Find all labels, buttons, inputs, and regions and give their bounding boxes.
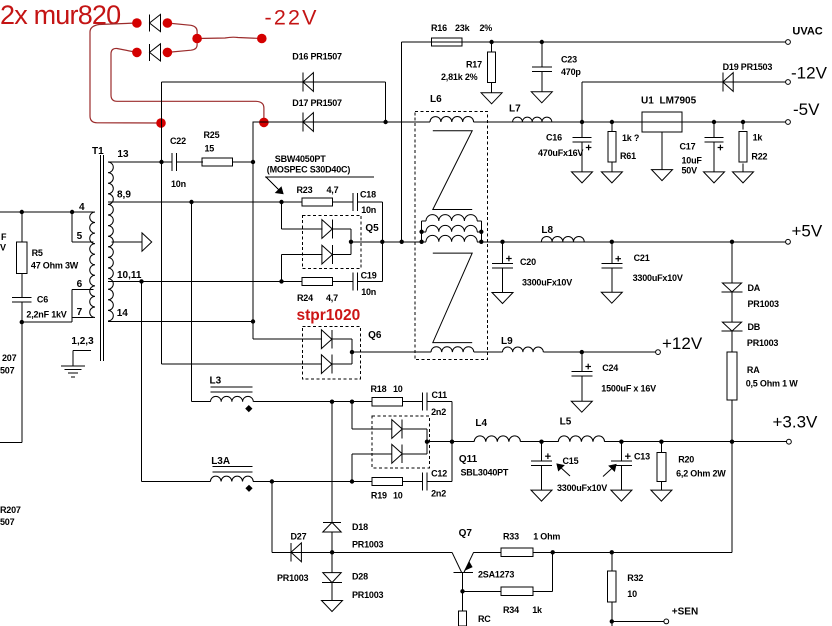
red wire from D-mur820-A anode to D17 output node <box>90 23 161 123</box>
wire D17 vertical x=253 <box>252 121 255 123</box>
svg-text:C11: C11 <box>432 390 448 400</box>
L6 middle winding row 3 <box>426 235 477 241</box>
resistor RA 0,5 Ohm 1W <box>727 352 737 400</box>
svg-text:RC: RC <box>478 614 491 624</box>
T1 pin 4 lead <box>0 211 94 213</box>
svg-text:10: 10 <box>393 384 403 394</box>
inductor L8 <box>541 236 584 241</box>
resistor R18 10 <box>372 398 403 406</box>
svg-text:3300uFx10V: 3300uFx10V <box>522 278 572 288</box>
magamp assembly L6 dashed box <box>415 112 488 360</box>
svg-text:L6: L6 <box>430 94 442 105</box>
Q11 diode B <box>401 444 403 463</box>
wire Q6 outputs join <box>332 338 352 340</box>
svg-text:-22V: -22V <box>265 6 319 30</box>
svg-text:+3.3V: +3.3V <box>773 413 819 432</box>
ground under R17 <box>491 83 493 93</box>
wire -5V / D17 rail y=122 <box>253 121 416 123</box>
svg-text:10n: 10n <box>361 287 376 297</box>
wire R33 line corner up to +3.3V <box>731 442 733 553</box>
wire RA to +3.3V rail <box>731 400 733 442</box>
capacitor C13 3300uFx10V <box>620 442 622 461</box>
node C24 <box>580 350 584 354</box>
wire L3 line <box>192 401 211 403</box>
red node dot on D17 line left <box>156 118 166 128</box>
wire D16 branch down to D17 line <box>385 82 387 122</box>
Q5 diode A <box>331 220 333 239</box>
wire C19 right to corner <box>358 280 383 282</box>
L6 middle winding row 1 <box>422 220 426 222</box>
svg-text:R20: R20 <box>678 455 694 465</box>
wire pin8,9 vertical to L3 <box>191 202 193 402</box>
capacitor C24 1500uF x 16V <box>581 352 583 371</box>
T1 pin 5 lead and jumper 4-5 <box>71 212 73 242</box>
svg-text:3300uFx10V: 3300uFx10V <box>557 483 607 493</box>
svg-text:15: 15 <box>205 144 215 154</box>
diode DB PR1003 <box>722 322 741 331</box>
svg-text:SBL3040PT: SBL3040PT <box>461 468 509 478</box>
wire DB to RA <box>731 331 733 352</box>
svg-text:stpr1020: stpr1020 <box>297 307 361 324</box>
ground under C13 <box>620 466 622 491</box>
wire R16 vertical x=401.6 <box>401 42 403 242</box>
node pin13 / D16 vertical <box>159 160 163 164</box>
wire D16 vertical x=161.5 <box>161 82 163 364</box>
svg-text:C15: C15 <box>563 456 579 466</box>
svg-text:C12: C12 <box>431 469 447 479</box>
svg-text:R207: R207 <box>0 505 21 515</box>
diode D17 PR1507 <box>302 113 304 132</box>
wire R34 line <box>463 590 501 592</box>
capacitor C16 470uFx16V <box>581 122 583 138</box>
svg-text:R18: R18 <box>371 384 387 394</box>
wire D18 vertical <box>331 402 333 523</box>
ground under D28 <box>331 583 333 601</box>
ground under C17 <box>713 142 715 172</box>
svg-text:5: 5 <box>77 231 83 242</box>
inductor L9 <box>503 347 544 352</box>
red node dot on D17 line right <box>259 118 269 128</box>
T1 winding direction arrow <box>112 241 143 243</box>
svg-text:-5V: -5V <box>793 100 820 119</box>
svg-text:2n2: 2n2 <box>431 489 446 499</box>
svg-text:10n: 10n <box>361 205 376 215</box>
node C11/C12 on Q11 output <box>450 440 454 444</box>
svg-text:D18: D18 <box>352 522 368 532</box>
svg-text:13: 13 <box>117 149 129 160</box>
svg-text:RA: RA <box>747 365 760 375</box>
svg-text:0,5 Ohm 1 W: 0,5 Ohm 1 W <box>746 379 799 389</box>
node R16 feed on +5V rail <box>400 240 404 244</box>
wire +5V rail y=241.8 <box>351 241 415 243</box>
node L3/D18 vertical <box>330 400 334 404</box>
svg-text:D28: D28 <box>352 572 368 582</box>
ground under C21 <box>611 268 613 292</box>
svg-text:1k: 1k <box>753 132 764 142</box>
svg-text:4,7: 4,7 <box>326 293 338 303</box>
svg-text:LM7905: LM7905 <box>660 96 697 107</box>
svg-text:R19: R19 <box>371 491 387 501</box>
ground under U1 <box>661 132 663 170</box>
resistor R19 10 <box>372 477 403 485</box>
resistor R33 1 Ohm <box>501 548 533 557</box>
Q6 diode B <box>331 355 333 374</box>
capacitor C17 10uF 50V <box>713 122 715 138</box>
capacitor C18 10n <box>333 201 353 203</box>
svg-text:C6: C6 <box>37 294 48 304</box>
svg-text:1 Ohm: 1 Ohm <box>533 532 560 542</box>
svg-text:2%: 2% <box>480 23 493 33</box>
L6 winding on -5V line <box>430 117 474 122</box>
capacitor C15 3300uFx10V <box>541 442 543 461</box>
inductor L5 <box>558 436 604 442</box>
wire Q11 diode A input <box>351 402 353 429</box>
wire pin7 to C6 bottom <box>22 321 72 323</box>
svg-text:1500uF x 16V: 1500uF x 16V <box>601 384 656 394</box>
ground under C20 <box>502 268 504 293</box>
terminal +3.3V <box>787 439 792 444</box>
node C23 top <box>540 40 544 44</box>
svg-text:(MOSPEC S30D40C): (MOSPEC S30D40C) <box>267 165 351 175</box>
wire -12V feed from -5V rail <box>581 82 583 122</box>
Q5 diode B <box>331 245 333 264</box>
svg-text:C17: C17 <box>680 142 696 152</box>
node C17 <box>712 120 716 124</box>
svg-text:50V: 50V <box>682 166 698 176</box>
svg-text:L7: L7 <box>509 104 521 115</box>
svg-text:V: V <box>0 243 6 253</box>
node R32 top <box>610 550 614 554</box>
wire R25 to vertical node <box>233 161 253 163</box>
node C20 <box>500 240 504 244</box>
node C15 <box>539 440 543 444</box>
ground under C15 <box>541 466 543 491</box>
diode mur820 B (black symbol) <box>149 44 151 61</box>
svg-text:U1: U1 <box>641 96 654 107</box>
wire pin10,11 vertical to L3A <box>141 281 143 481</box>
svg-text:C19: C19 <box>361 271 377 281</box>
svg-text:1,2,3: 1,2,3 <box>71 336 94 347</box>
wire L3A node down to D27 line <box>271 482 273 553</box>
svg-text:C13: C13 <box>634 452 650 462</box>
L6 wire through box on -5V line <box>415 121 430 123</box>
resistor R34 1k <box>501 587 533 596</box>
svg-text:3300uFx10V: 3300uFx10V <box>633 273 683 283</box>
node R33/R34 <box>551 550 555 554</box>
wire Q11 diode B input <box>351 454 353 482</box>
node R19/Q11 input <box>350 479 354 483</box>
svg-text:207: 207 <box>2 353 17 363</box>
svg-text:C18: C18 <box>360 190 376 200</box>
svg-text:R17: R17 <box>466 60 482 70</box>
wire L4 to L5 <box>520 441 558 443</box>
ground under C24 <box>581 376 583 401</box>
wire L3A line <box>142 481 211 483</box>
svg-text:6: 6 <box>77 279 83 290</box>
dual diode Q6 dashed box <box>302 327 360 379</box>
resistor R17 <box>491 42 493 52</box>
svg-text:R22: R22 <box>751 152 767 162</box>
annotation arrow to Q5 <box>266 177 282 192</box>
svg-text:R25: R25 <box>204 130 220 140</box>
svg-text:R16: R16 <box>431 23 447 33</box>
capacitor C20 3300uFx10V <box>502 242 504 263</box>
node D18/D27/D28 <box>330 550 334 554</box>
svg-text:PR1003: PR1003 <box>748 299 780 309</box>
svg-text:F: F <box>1 232 7 242</box>
wire C6 to pin7 node <box>21 302 23 322</box>
wire D16 branch y=82 <box>162 81 386 83</box>
resistor R23 4,7 <box>302 198 333 206</box>
ground under R61 <box>611 162 613 172</box>
T1 pin 13 lead <box>108 161 172 163</box>
L6 winding on +12V line <box>431 347 474 352</box>
L6 core symbol upper Z <box>433 131 472 210</box>
regulator U1 LM7905 <box>642 112 682 132</box>
svg-text:4: 4 <box>79 202 85 213</box>
svg-text:R33: R33 <box>503 532 519 542</box>
wire C22 to R25 <box>177 161 203 163</box>
wire C11 to corner down <box>427 401 452 403</box>
wire D27 line y=552.3 <box>272 551 452 553</box>
capacitor C6 2,2nF 1kV <box>21 274 23 298</box>
node C21 <box>610 240 614 244</box>
wire x=161.5 corner to Q6 diode B <box>162 363 323 365</box>
svg-text:8,9: 8,9 <box>117 190 131 201</box>
svg-text:R5: R5 <box>32 248 43 258</box>
capacitor C22 10n <box>171 153 173 171</box>
wire Q11 output line <box>427 441 474 443</box>
svg-text:D19 PR1503: D19 PR1503 <box>723 62 773 72</box>
dual schottky Q11 dashed box <box>372 416 429 468</box>
ground under R22 <box>742 164 744 172</box>
L6 middle winding row 2 <box>422 231 426 233</box>
resistor R16 <box>431 38 462 46</box>
svg-text:2n2: 2n2 <box>431 407 446 417</box>
Q11 diode A <box>401 420 403 439</box>
T1 pin 7 lead and jumper 6-7 <box>71 289 73 322</box>
diode D27 PR1003 <box>290 543 292 562</box>
svg-text:L3A: L3A <box>211 456 230 467</box>
svg-text:L8: L8 <box>541 225 553 236</box>
svg-text:507: 507 <box>0 517 15 527</box>
svg-text:10uF: 10uF <box>682 156 703 166</box>
wire L5 to +3.3V terminal <box>605 441 787 443</box>
svg-text:Q6: Q6 <box>368 330 382 341</box>
node R20 <box>659 440 663 444</box>
red junction dots on mur820 diodes <box>132 18 142 28</box>
svg-text:+5V: +5V <box>792 221 823 240</box>
L3 core bars <box>211 386 253 388</box>
svg-text:7: 7 <box>77 307 83 318</box>
svg-text:PR1003: PR1003 <box>277 573 309 583</box>
svg-text:D17 PR1507: D17 PR1507 <box>292 98 342 108</box>
wire R33 line <box>474 551 501 553</box>
svg-text:D16 PR1507: D16 PR1507 <box>292 52 342 62</box>
node R17 top <box>489 40 493 44</box>
wire Q5 diode A input <box>281 202 283 229</box>
svg-text:C20: C20 <box>520 257 536 267</box>
terminal +5V <box>786 239 791 244</box>
node L3/Q11 input <box>350 400 354 404</box>
red node dot -22V junction <box>192 34 202 44</box>
svg-text:L4: L4 <box>475 418 487 429</box>
red node dot -22V terminal <box>257 34 267 44</box>
node R61 <box>610 120 614 124</box>
resistor R61 1k <box>611 122 613 132</box>
svg-text:R32: R32 <box>627 573 643 583</box>
svg-text:R61: R61 <box>620 151 636 161</box>
capacitor C23 <box>541 42 543 67</box>
transformer T1 primary winding <box>90 212 95 317</box>
svg-text:Q5: Q5 <box>365 223 379 234</box>
svg-text:470uFx16V: 470uFx16V <box>538 148 583 158</box>
svg-text:14: 14 <box>117 308 129 319</box>
svg-text:SBW4050PT: SBW4050PT <box>275 154 326 164</box>
wire Q5 diode B input <box>281 255 283 282</box>
svg-text:Q11: Q11 <box>459 454 478 465</box>
capacitor C19 10n <box>333 280 353 282</box>
svg-text:C23: C23 <box>561 55 577 65</box>
resistor R20 6,2 Ohm 2W <box>660 442 662 453</box>
svg-text:10: 10 <box>627 589 637 599</box>
inductor L3 <box>211 396 254 401</box>
wire x=253 corner to Q6 diode A <box>253 338 322 340</box>
diode D16 PR1507 <box>302 73 304 92</box>
svg-text:UVAC: UVAC <box>792 26 822 38</box>
svg-text:L9: L9 <box>501 336 513 347</box>
ground under C16 <box>581 142 583 172</box>
svg-text:R34: R34 <box>503 605 519 615</box>
T1 pin 6 lead <box>72 288 93 290</box>
node R24 left <box>279 279 283 283</box>
wire C18 right to corner <box>358 201 383 203</box>
diode DA PR1003 <box>722 283 741 292</box>
T1 pin 8,9 lead <box>108 201 302 203</box>
wire R32 bottom to +SEN <box>611 602 613 626</box>
svg-text:10: 10 <box>393 491 403 501</box>
L6 wire through box on +5V line <box>415 241 426 243</box>
L3 polarity diamond <box>245 405 252 412</box>
svg-text:4,7: 4,7 <box>327 185 339 195</box>
resistor RC <box>462 591 464 611</box>
T1 pin 1,2,3 lead <box>73 349 91 351</box>
node +3.3V rail <box>730 440 734 444</box>
svg-text:L5: L5 <box>560 417 572 428</box>
svg-text:23k: 23k <box>455 23 471 33</box>
svg-text:1k ?: 1k ? <box>622 133 639 143</box>
L3A polarity diamond <box>245 485 252 492</box>
svg-text:DB: DB <box>748 322 761 332</box>
svg-text:R24: R24 <box>297 293 313 303</box>
resistor R24 4,7 <box>302 277 333 285</box>
wire C6 node down and out left edge <box>21 322 23 442</box>
svg-text:C24: C24 <box>602 363 618 373</box>
dual schottky Q5 dashed box <box>302 216 361 269</box>
T1 pin 14 lead <box>108 321 253 323</box>
node pin14 vertical <box>251 319 255 323</box>
resistor R25 15 <box>202 158 233 166</box>
red wire to -22V terminal dot <box>197 37 262 38</box>
svg-text:507: 507 <box>0 366 15 376</box>
svg-text:PR1003: PR1003 <box>352 590 384 600</box>
Q6 diode A <box>331 330 333 349</box>
node R22 <box>741 120 745 124</box>
svg-text:47 Ohm 3W: 47 Ohm 3W <box>31 260 79 270</box>
resistor R5 47 Ohm 3W <box>21 212 23 242</box>
svg-text:T1: T1 <box>92 146 104 157</box>
wire C12 to corner up <box>427 481 452 483</box>
svg-text:2,81k 2%: 2,81k 2% <box>441 72 478 82</box>
red wire from D-mur820-B anode down to Q6/D17 node <box>111 48 264 122</box>
chassis ground under T1 pins 1,2,3 <box>61 365 85 367</box>
L6 winding bus right <box>480 221 482 242</box>
inductor L3A <box>210 476 253 481</box>
svg-text:10,11: 10,11 <box>117 270 142 281</box>
inductor L4 <box>474 436 520 442</box>
diode D19 PR1503 <box>722 73 724 92</box>
wire Q5 outputs join <box>332 228 351 230</box>
node DA chain top <box>730 240 734 244</box>
capacitor C12 2n2 <box>402 481 422 483</box>
red wire diode B cathode to -22V junction <box>167 39 197 53</box>
L6 wire through box on +12V line <box>415 351 431 353</box>
svg-text:DA: DA <box>748 283 761 293</box>
svg-text:D27: D27 <box>291 532 307 542</box>
svg-text:6,2 Ohm 2W: 6,2 Ohm 2W <box>676 469 726 479</box>
svg-text:Q7: Q7 <box>459 528 473 539</box>
node C18/C19 on +5V line <box>380 240 384 244</box>
node pin4/R5 <box>20 210 24 214</box>
svg-text:-12V: -12V <box>791 64 828 83</box>
terminal +12V <box>656 350 661 355</box>
transformer T1 secondary winding <box>108 162 113 321</box>
T1 pin 10,11 lead <box>108 280 302 282</box>
transformer T1 core <box>100 155 102 361</box>
capacitor C11 2n2 <box>402 401 422 403</box>
ground under R20 <box>660 482 662 490</box>
svg-text:C21: C21 <box>634 253 650 263</box>
terminal -5V <box>786 120 791 125</box>
diode mur820 A (black symbol) <box>149 14 151 31</box>
wire Q6 output to L9 <box>352 351 415 353</box>
red wire diode A cathode to -22V junction <box>167 23 197 39</box>
svg-text:1k: 1k <box>532 605 543 615</box>
ground under C23 <box>541 72 543 92</box>
terminal +SEN <box>664 619 669 624</box>
wire L9 to +12V terminal <box>488 351 503 353</box>
wire -12V rail y=82 <box>582 81 785 83</box>
node R23 left <box>279 200 283 204</box>
svg-text:L3: L3 <box>210 376 222 387</box>
svg-text:2SA1273: 2SA1273 <box>478 570 514 580</box>
svg-text:PR1003: PR1003 <box>747 338 779 348</box>
svg-text:C22: C22 <box>170 136 186 146</box>
svg-text:+12V: +12V <box>662 334 703 353</box>
svg-text:+SEN: +SEN <box>672 607 698 618</box>
capacitor C21 3300uFx10V <box>611 242 613 264</box>
L3A core bars <box>213 466 253 468</box>
wire DA to DB <box>731 292 733 322</box>
diode D18 PR1003 <box>323 521 341 523</box>
svg-text:2,2nF 1kV: 2,2nF 1kV <box>26 310 66 320</box>
svg-text:470p: 470p <box>561 67 581 77</box>
wire +5V to DA <box>731 242 733 283</box>
svg-text:C16: C16 <box>546 133 562 143</box>
node pin10,11 / L3A vertical <box>139 279 143 283</box>
svg-text:10n: 10n <box>171 179 186 189</box>
svg-text:R23: R23 <box>297 185 313 195</box>
